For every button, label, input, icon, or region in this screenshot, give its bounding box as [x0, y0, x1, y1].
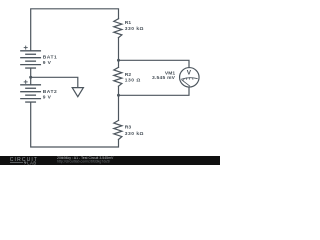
wire node to R3: [118, 95, 120, 120]
voltmeter needle: [182, 80, 190, 86]
wire BAT1 to junction: [30, 68, 32, 77]
svg-text:BAT1: BAT1: [43, 54, 58, 60]
resistor R2: [114, 67, 122, 86]
node junction R1/R2/VM1 top: [117, 59, 120, 62]
logo circuitlab: [10, 157, 38, 166]
wire top rail: [31, 9, 119, 51]
svg-text:R2: R2: [125, 72, 132, 78]
svg-text:R3: R3: [125, 124, 132, 130]
svg-text:330 kΩ: 330 kΩ: [125, 26, 144, 32]
svg-text:130 Ω: 130 Ω: [125, 78, 141, 84]
footer bar: [0, 156, 220, 165]
svg-text:V: V: [187, 70, 192, 77]
resistor R1: [114, 19, 122, 38]
svg-text:LAB: LAB: [27, 161, 36, 165]
plus sign BAT2: [24, 80, 28, 84]
node junction BAT1/BAT2/ground: [29, 76, 32, 79]
voltmeter ticks: [184, 78, 193, 81]
svg-text:9 V: 9 V: [43, 60, 52, 66]
voltmeter VM1: [180, 68, 200, 88]
wire node to R2: [118, 60, 120, 67]
wire R2 to node: [118, 86, 120, 95]
wire bottom meter rail: [119, 87, 190, 95]
svg-text:330 kΩ: 330 kΩ: [125, 131, 144, 137]
resistor R3: [114, 120, 122, 139]
wire bottom rail: [31, 102, 119, 147]
svg-text:http://circuitlab.com/c/6fd3kg: http://circuitlab.com/c/6fd3kg7du5/: [57, 159, 110, 163]
wire junction to ground: [31, 77, 78, 87]
svg-text:9 V: 9 V: [43, 94, 52, 100]
svg-text:R1: R1: [125, 20, 132, 26]
wire R1 to node: [118, 38, 120, 61]
battery BAT2: [21, 85, 41, 102]
node junction R2/R3/VM1 bottom: [117, 94, 120, 97]
voltmeter gauge arc: [182, 78, 198, 79]
battery BAT1: [21, 51, 41, 68]
svg-text:3.545 mV: 3.545 mV: [152, 75, 176, 81]
svg-text:BAT2: BAT2: [43, 89, 58, 95]
wire junction to BAT2: [30, 77, 32, 85]
plus sign BAT1: [24, 46, 28, 50]
ground: [72, 88, 83, 97]
wire top meter rail: [119, 60, 190, 67]
